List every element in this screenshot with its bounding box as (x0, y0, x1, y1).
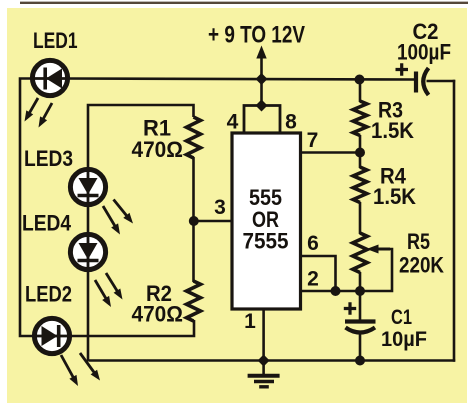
svg-text:LED1: LED1 (33, 28, 78, 53)
junction: pin 2 / R5 / C1 (355, 286, 365, 296)
wire: left rail LED1 to LED2 (20, 79, 39, 337)
svg-text:7: 7 (307, 129, 319, 152)
wire: R1 bottom to R2 top through pin3 node (192, 157, 195, 282)
wire: supply rail to right rail after C2 (427, 80, 456, 83)
svg-text:LED4: LED4 (22, 211, 71, 236)
wire: pin 2 (300, 290, 362, 293)
wire: pin 3 (194, 220, 233, 223)
svg-text:8: 8 (285, 111, 297, 134)
potentiometer R5 wiper arrow (374, 248, 390, 251)
svg-text:7555: 7555 (243, 229, 289, 254)
svg-text:R5: R5 (407, 229, 430, 254)
LED1 (points left) (32, 60, 67, 95)
svg-text:6: 6 (307, 232, 319, 255)
resistor R2 zigzag (187, 281, 201, 321)
svg-text:2: 2 (307, 268, 319, 291)
svg-text:LED3: LED3 (24, 146, 73, 171)
wire: +V supply rail (63, 79, 415, 80)
junction: pins 4-8 bracket center (256, 100, 268, 112)
wire: right vertical rail (453, 80, 456, 362)
svg-text:470Ω: 470Ω (132, 137, 184, 162)
C1 plus sign (344, 302, 356, 314)
wire: R5 bottom to pin2 node (359, 272, 362, 292)
svg-text:LED2: LED2 (25, 282, 72, 307)
junction: C1 / ground rail (355, 356, 365, 366)
junction: R3 / R4 / pin 7 (355, 148, 365, 158)
wire: bottom ground rail (89, 359, 455, 362)
wire: R3 top to supply rail (359, 79, 362, 102)
svg-text:4: 4 (227, 111, 239, 134)
wire: pins 4/8 bracket (244, 106, 280, 135)
top rule line (20, 2, 468, 4)
junction: supply rail / arrow stem (256, 73, 268, 85)
supply arrow head (256, 46, 266, 59)
resistor R1 zigzag (187, 117, 201, 158)
potentiometer R5 zigzag (353, 233, 367, 273)
ground symbol (248, 374, 280, 378)
wire: pin 6 (300, 256, 336, 291)
resistor R4 zigzag (353, 167, 367, 203)
wire: R5 wiper return loop (362, 249, 392, 291)
svg-text:220K: 220K (399, 253, 444, 278)
wire: R3 bottom / R4 top (359, 135, 362, 168)
wire: pin 1 down to ground (262, 308, 265, 374)
wire: pin 7 (300, 151, 360, 154)
wire: supply arrow stem down to pins 4/8 bracket (260, 57, 263, 106)
svg-text:C1: C1 (391, 306, 412, 329)
svg-text:470Ω: 470Ω (132, 302, 184, 327)
LED1 emission arrows (28, 98, 38, 116)
junction: supply rail / R3 / C2 (355, 75, 365, 85)
LED2 (points right) (34, 318, 69, 353)
wire: C1 top lead (359, 291, 362, 321)
LED4 (points down) (70, 234, 105, 269)
LED3 emission arrows (103, 206, 117, 229)
svg-text:100µF: 100µF (397, 40, 451, 65)
junction: pin 1 / ground rail (258, 355, 270, 367)
wire: C1 bottom lead to ground rail (359, 331, 362, 361)
LED2 emission arrows (61, 355, 75, 380)
junction: pin 6 / pin 2 (331, 286, 341, 296)
wire: R4 bottom to R5 top (359, 202, 362, 234)
capacitor C2 plates (414, 72, 418, 93)
op-amp/timer IC U1 555 box (232, 133, 301, 309)
svg-text:1.5K: 1.5K (373, 184, 416, 209)
svg-text:1.5K: 1.5K (371, 118, 414, 143)
LED4 emission arrows (95, 280, 108, 301)
LED3 (points down) (70, 169, 105, 204)
capacitor C1 plates (345, 319, 376, 323)
svg-text:1: 1 (244, 310, 256, 333)
junction: pin 3 node (189, 216, 199, 226)
svg-text:10µF: 10µF (381, 328, 427, 351)
wire: LED3/LED4 chain top and down to ground rail (88, 105, 194, 172)
svg-text:+ 9 TO 12V: + 9 TO 12V (208, 22, 305, 49)
resistor R3 zigzag (353, 101, 367, 136)
C2 plus sign (396, 63, 409, 75)
svg-text:3: 3 (214, 196, 226, 219)
wire: LED2 right to R2 bottom (65, 320, 194, 336)
